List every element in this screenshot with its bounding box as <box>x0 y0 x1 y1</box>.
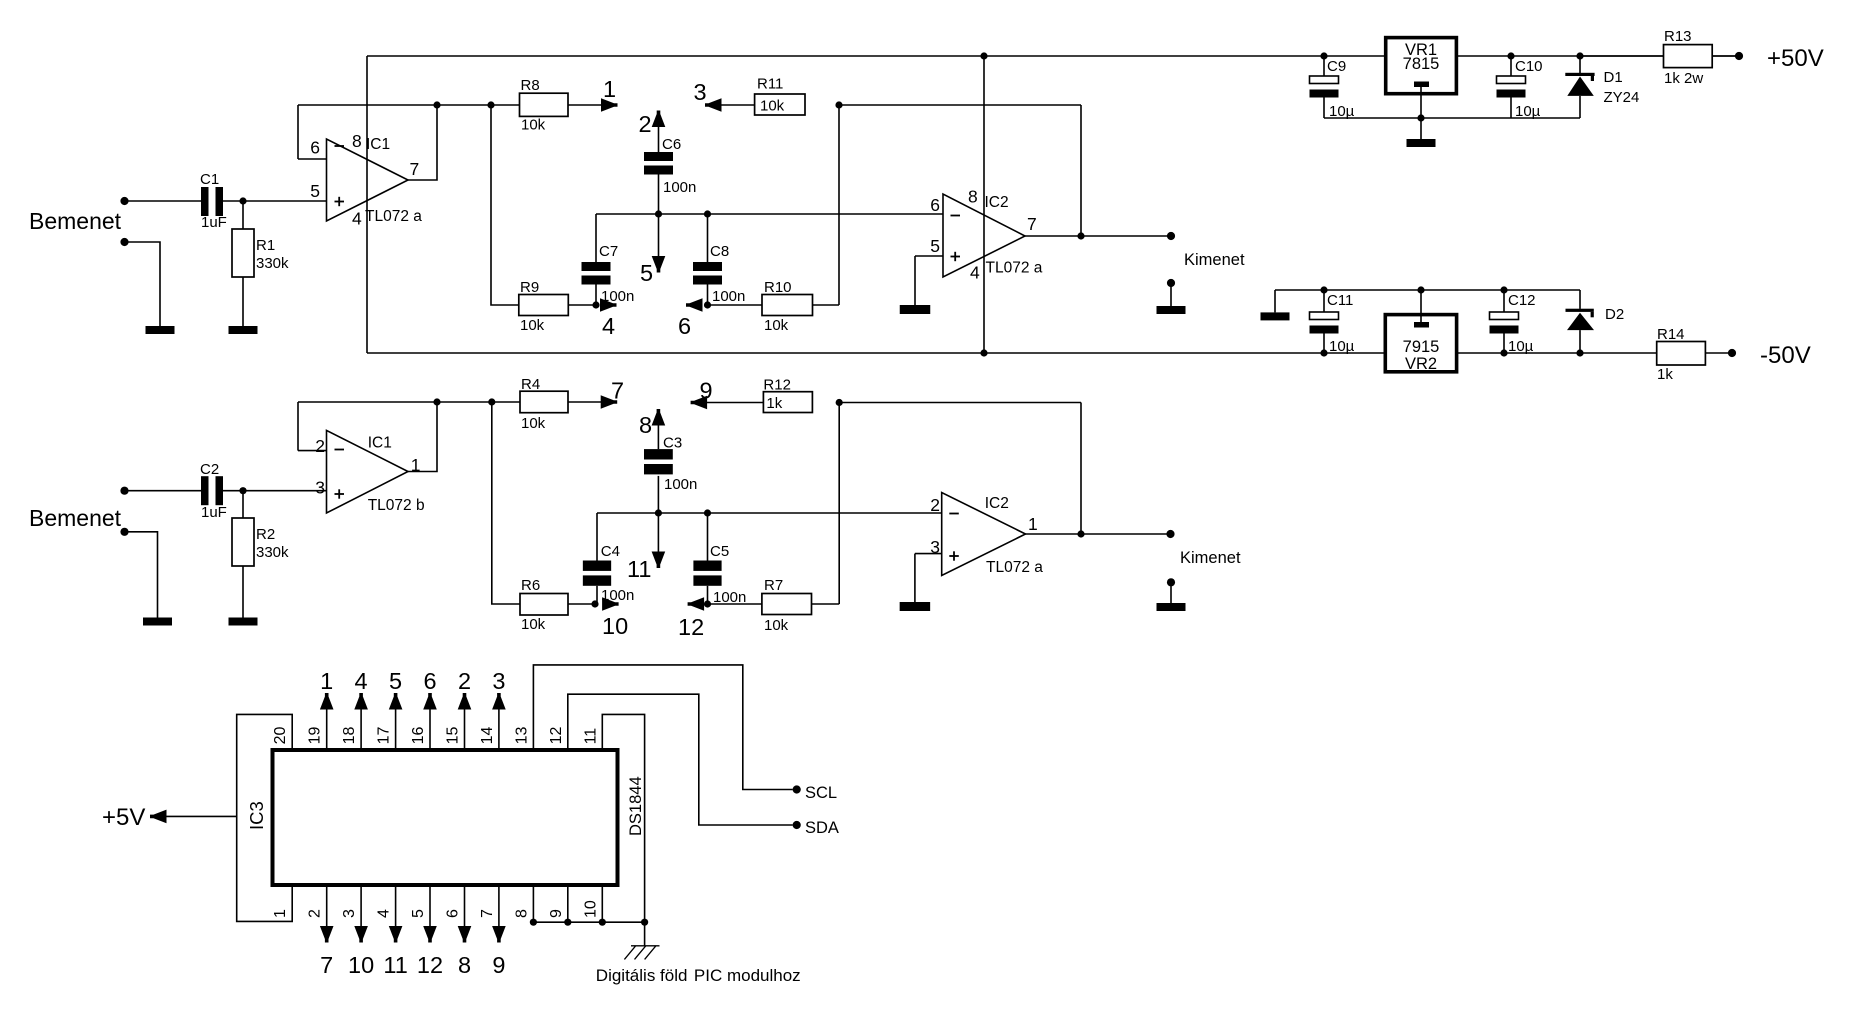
svg-text:Digitális föld: Digitális föld <box>596 966 688 985</box>
label digital ground <box>596 966 801 985</box>
digital ground symbol <box>624 922 659 959</box>
capacitor C9 <box>1310 56 1355 120</box>
node 3 arrow <box>694 79 722 112</box>
svg-text:Bemenet: Bemenet <box>29 505 122 531</box>
wire IC1b pin2 stub <box>298 450 327 452</box>
svg-text:Kimenet: Kimenet <box>1184 251 1245 269</box>
wire IC2a pin5 to ground <box>915 256 943 305</box>
wire input A to C1 <box>125 200 202 202</box>
svg-text:11: 11 <box>627 556 651 582</box>
svg-text:8: 8 <box>352 131 362 151</box>
svg-text:6: 6 <box>678 313 691 339</box>
wire IC2b output to Kimenet <box>1026 530 1171 537</box>
svg-text:100n: 100n <box>663 179 696 196</box>
svg-text:+50V: +50V <box>1767 45 1824 72</box>
IC3 pin 7 arrow node 9 (bottom) <box>492 887 506 978</box>
svg-text:6: 6 <box>445 909 462 918</box>
wire net IC2b pin2 (y513) <box>597 509 942 516</box>
ground R2 <box>229 618 258 626</box>
node Kimenet B terminal <box>1166 530 1241 567</box>
svg-text:17: 17 <box>376 727 393 745</box>
IC3 pin 3 arrow node 10 (bottom) <box>348 887 374 978</box>
wire PSU- top link <box>1275 286 1580 293</box>
svg-text:5: 5 <box>410 909 427 918</box>
svg-text:4: 4 <box>602 313 615 339</box>
wire IC2a power feed (pins 8/4) <box>983 56 985 353</box>
wire IC1a power feed (pins 8/4) <box>366 56 368 353</box>
capacitor C12 <box>1490 290 1536 355</box>
resistor R9 <box>519 279 569 334</box>
wire D1 to R13 <box>1580 55 1664 57</box>
wire C8 to R10 <box>708 304 763 306</box>
IC3 pin 5 arrow node 12 (bottom) <box>417 887 443 978</box>
svg-text:4: 4 <box>352 209 362 229</box>
wire VR1 ground stem <box>1420 118 1422 139</box>
wire +15V rail <box>367 52 1739 59</box>
wire C2 to IC1b pin3 <box>223 487 327 494</box>
svg-text:3: 3 <box>694 79 707 105</box>
resistor R4 <box>520 376 568 432</box>
wire C5 to R7 <box>708 603 762 605</box>
wire R12 to node 9 <box>695 402 764 404</box>
svg-text:9: 9 <box>548 909 565 918</box>
svg-text:15: 15 <box>445 727 462 745</box>
capacitor C7 <box>582 214 635 305</box>
IC3 pin numbers <box>272 727 599 918</box>
svg-text:IC2: IC2 <box>985 495 1009 512</box>
svg-text:C6: C6 <box>662 136 681 153</box>
svg-text:DS1844: DS1844 <box>627 776 645 836</box>
svg-text:R9: R9 <box>520 279 539 296</box>
svg-text:PIC modulhoz: PIC modulhoz <box>694 966 801 985</box>
svg-text:10: 10 <box>582 900 599 918</box>
capacitor C2 <box>200 461 227 521</box>
svg-text:-50V: -50V <box>1760 342 1811 369</box>
svg-text:C8: C8 <box>710 243 729 260</box>
svg-text:7: 7 <box>320 952 333 978</box>
svg-text:3: 3 <box>492 668 505 694</box>
ground VR1 <box>1407 139 1436 147</box>
node 7 arrow <box>601 378 624 409</box>
IC3 pin 14 arrow node 3 (top) <box>492 668 506 748</box>
node 6 arrow <box>678 298 711 339</box>
svg-text:12: 12 <box>678 614 704 640</box>
svg-text:1k: 1k <box>1657 366 1673 383</box>
svg-text:18: 18 <box>341 727 358 745</box>
svg-text:1k: 1k <box>766 395 782 412</box>
resistor R6 <box>520 577 568 633</box>
svg-text:10: 10 <box>602 613 628 639</box>
svg-text:7: 7 <box>1027 214 1037 234</box>
zener diode D1 <box>1565 56 1639 118</box>
svg-text:7815: 7815 <box>1403 55 1440 73</box>
label DS1844 <box>627 776 645 836</box>
capacitor C8 <box>693 214 745 305</box>
svg-text:SDA: SDA <box>805 819 839 837</box>
wire R4 node to R6 <box>492 402 520 604</box>
regulator VR2 7915 <box>1385 290 1456 373</box>
IC3 pin 2 arrow node 7 (bottom) <box>320 887 334 978</box>
svg-text:7915: 7915 <box>1403 338 1440 356</box>
resistor R2 <box>232 491 289 566</box>
svg-text:11: 11 <box>582 728 599 745</box>
svg-text:C9: C9 <box>1327 58 1346 75</box>
svg-text:3: 3 <box>341 909 358 918</box>
svg-text:R12: R12 <box>763 377 791 394</box>
capacitor C6 <box>644 114 696 214</box>
svg-text:14: 14 <box>479 727 496 745</box>
svg-text:12: 12 <box>548 727 565 745</box>
node 10 arrow <box>602 597 628 639</box>
regulator VR1 7815 <box>1386 38 1457 118</box>
capacitor C3 <box>644 413 697 513</box>
wire R7 to R12 node <box>812 403 840 605</box>
svg-text:13: 13 <box>513 727 530 745</box>
svg-text:R6: R6 <box>521 577 540 594</box>
svg-text:5: 5 <box>310 181 320 201</box>
wire IC3 ground rail pins 8-10 <box>530 887 648 926</box>
svg-text:16: 16 <box>410 727 427 745</box>
svg-text:R7: R7 <box>764 577 783 594</box>
wire R13 to +50V <box>1712 55 1739 57</box>
svg-text:Kimenet: Kimenet <box>1180 549 1241 567</box>
svg-text:5: 5 <box>389 668 402 694</box>
svg-text:R8: R8 <box>521 77 540 94</box>
resistor R8 <box>520 77 569 134</box>
wire R11 to node 3 <box>709 104 755 106</box>
IC3 pin 4 arrow node 11 (bottom) <box>383 887 407 978</box>
node 2 arrow <box>639 111 666 138</box>
svg-text:1uF: 1uF <box>201 504 227 521</box>
ground input A <box>146 326 175 334</box>
svg-text:C1: C1 <box>200 171 219 188</box>
svg-text:C5: C5 <box>710 543 729 560</box>
wire R9 to C7 node <box>568 301 599 308</box>
svg-text:2: 2 <box>307 909 324 918</box>
svg-text:10k: 10k <box>764 317 789 334</box>
svg-text:4: 4 <box>970 263 980 283</box>
svg-text:R14: R14 <box>1657 326 1685 343</box>
svg-text:IC1: IC1 <box>366 136 390 153</box>
node input terminal B (gnd) <box>120 528 128 536</box>
wire R6 to C4 node <box>568 600 599 607</box>
label Bemenet (B) <box>29 505 122 531</box>
IC3 pin 15 arrow node 2 (top) <box>458 668 472 748</box>
svg-text:1: 1 <box>320 668 333 694</box>
ground R1 <box>229 326 258 334</box>
svg-text:1k 2w: 1k 2w <box>1664 70 1703 87</box>
ground IC2a pin5 <box>900 305 931 314</box>
svg-text:Bemenet: Bemenet <box>29 208 122 234</box>
node 11 arrow <box>627 513 665 582</box>
node 4 arrow <box>600 298 617 339</box>
svg-text:ZY24: ZY24 <box>1604 89 1640 106</box>
svg-text:8: 8 <box>968 187 978 207</box>
ground PSU- link <box>1261 312 1290 320</box>
svg-text:C10: C10 <box>1515 58 1543 75</box>
node SCL terminal <box>793 784 838 802</box>
svg-text:1: 1 <box>1028 514 1038 534</box>
svg-text:8: 8 <box>458 952 471 978</box>
wire R4 to node 7 <box>568 401 613 403</box>
svg-text:19: 19 <box>307 727 324 745</box>
wire net IC2a pin6 (y214) <box>596 210 943 217</box>
node Kimenet A terminal <box>1167 232 1245 269</box>
svg-text:10µ: 10µ <box>1508 338 1534 355</box>
node output ground terminal A <box>1167 279 1175 306</box>
svg-text:2: 2 <box>458 668 471 694</box>
svg-text:7: 7 <box>479 909 496 918</box>
zener diode D2 <box>1566 290 1625 353</box>
svg-text:10k: 10k <box>521 616 546 633</box>
op-amp IC2a <box>930 187 1042 283</box>
svg-text:3: 3 <box>315 478 325 498</box>
svg-text:100n: 100n <box>664 476 697 493</box>
resistor R1 <box>232 201 289 277</box>
svg-text:7: 7 <box>410 159 420 179</box>
IC3 pin 6 arrow node 8 (bottom) <box>458 887 472 978</box>
svg-text:9: 9 <box>492 952 505 978</box>
svg-text:2: 2 <box>639 111 652 137</box>
svg-text:12: 12 <box>417 952 443 978</box>
capacitor C4 <box>583 513 635 604</box>
svg-text:10k: 10k <box>521 415 546 432</box>
svg-text:10k: 10k <box>764 617 789 634</box>
svg-text:2: 2 <box>315 436 325 456</box>
svg-text:R4: R4 <box>521 376 540 393</box>
svg-text:10µ: 10µ <box>1515 103 1541 120</box>
svg-text:1uF: 1uF <box>201 214 227 231</box>
wire input gnd B <box>125 532 158 618</box>
svg-text:R2: R2 <box>256 526 275 543</box>
svg-text:R1: R1 <box>256 237 275 254</box>
svg-text:D2: D2 <box>1605 306 1624 323</box>
svg-text:6: 6 <box>310 138 320 158</box>
wire R11 to IC2a output <box>835 101 1081 236</box>
svg-text:4: 4 <box>376 909 393 918</box>
wire IC3 pin11 to ground rail <box>602 714 644 922</box>
svg-text:IC2: IC2 <box>985 194 1009 211</box>
capacitor C11 <box>1310 290 1355 355</box>
svg-text:SCL: SCL <box>805 784 837 802</box>
svg-text:IC1: IC1 <box>368 435 392 452</box>
wire R12 to IC2b output <box>836 399 1081 534</box>
svg-text:C7: C7 <box>599 243 618 260</box>
svg-text:10µ: 10µ <box>1329 338 1355 355</box>
op-amp IC2b <box>930 493 1043 577</box>
svg-text:10k: 10k <box>520 317 545 334</box>
svg-text:1: 1 <box>603 76 616 102</box>
wire IC1b feedback <box>298 398 520 471</box>
ground input B <box>143 618 172 626</box>
wire input gnd A <box>125 242 161 326</box>
node +5V arrow <box>102 804 167 831</box>
IC3 pin 19 arrow node 1 (top) <box>320 668 334 748</box>
op-amp IC1a <box>310 131 422 229</box>
op-amp IC1b <box>315 430 424 514</box>
label Bemenet (A) <box>29 208 122 234</box>
node 8 arrow <box>639 409 665 438</box>
svg-text:6: 6 <box>930 195 940 215</box>
resistor R12 <box>763 377 812 413</box>
node -50V terminal <box>1728 342 1811 369</box>
node input terminal B (hot) <box>120 487 128 495</box>
node input terminal A (hot) <box>120 197 128 205</box>
svg-text:330k: 330k <box>256 544 289 561</box>
wire +5V to IC3 <box>154 815 237 817</box>
ground output A <box>1157 306 1186 314</box>
node 12 arrow <box>678 597 711 640</box>
svg-text:D1: D1 <box>1604 69 1623 86</box>
IC3 pin 17 arrow node 5 (top) <box>389 668 403 748</box>
wire IC3 pins 20/1 bracket <box>237 714 293 921</box>
svg-text:7: 7 <box>611 378 624 404</box>
label IC3 <box>246 801 267 830</box>
svg-text:TL072 a: TL072 a <box>986 260 1043 277</box>
node 1 arrow <box>601 76 618 112</box>
svg-text:2: 2 <box>930 495 940 515</box>
svg-text:R11: R11 <box>757 76 783 93</box>
IC3 pin 16 arrow node 6 (top) <box>423 668 437 748</box>
wire IC2a output to Kimenet <box>1025 232 1171 239</box>
wire IC1a pin6 stub <box>298 158 327 160</box>
wire input B to C2 <box>125 490 202 492</box>
svg-text:C4: C4 <box>601 543 620 560</box>
svg-text:C11: C11 <box>1327 292 1353 309</box>
node output ground terminal B <box>1167 578 1175 603</box>
wire R8 to node 1 <box>568 104 613 106</box>
wire IC2b pin3 to ground <box>915 554 942 602</box>
capacitor C5 <box>693 513 746 606</box>
wire R2 to ground <box>242 566 244 618</box>
svg-text:C3: C3 <box>663 435 682 452</box>
node 5 arrow <box>640 214 665 286</box>
svg-text:C12: C12 <box>1508 292 1536 309</box>
svg-text:+5V: +5V <box>102 804 145 831</box>
svg-text:100n: 100n <box>712 288 745 305</box>
svg-text:5: 5 <box>640 260 653 286</box>
svg-text:8: 8 <box>639 412 652 438</box>
svg-text:R13: R13 <box>1664 28 1692 45</box>
wire R10 to R11 node <box>813 105 840 305</box>
svg-text:8: 8 <box>513 909 530 918</box>
capacitor C1 <box>200 171 227 231</box>
svg-text:10k: 10k <box>521 117 546 134</box>
svg-text:TL072 b: TL072 b <box>368 497 425 514</box>
wire R1 to ground <box>242 277 244 326</box>
wire PSU- link left drop <box>1274 290 1276 312</box>
node input terminal A (gnd) <box>120 238 128 246</box>
svg-text:1: 1 <box>272 909 289 918</box>
svg-text:6: 6 <box>423 668 436 694</box>
svg-text:100n: 100n <box>601 288 634 305</box>
capacitor C10 <box>1497 56 1543 120</box>
svg-text:100n: 100n <box>601 587 634 604</box>
wire PSU+ ground link <box>1324 114 1580 121</box>
svg-text:IC3: IC3 <box>246 801 267 830</box>
resistor R14 <box>1657 326 1706 383</box>
svg-text:VR2: VR2 <box>1405 355 1437 373</box>
svg-text:10: 10 <box>348 952 374 978</box>
svg-text:10k: 10k <box>760 98 785 115</box>
svg-text:TL072 a: TL072 a <box>365 208 422 225</box>
wire IC1a feedback <box>298 101 520 180</box>
node +50V terminal <box>1735 45 1824 72</box>
svg-text:R10: R10 <box>764 279 792 296</box>
svg-text:9: 9 <box>700 378 713 404</box>
resistor R7 <box>762 577 812 634</box>
node 9 arrow <box>691 378 713 410</box>
svg-text:20: 20 <box>272 727 289 745</box>
wire IC3 pin13 to SCL <box>533 665 792 790</box>
IC3 package outline <box>273 750 618 885</box>
wire C1 to IC1a pin5 <box>223 197 327 204</box>
wire R8 node to R9 <box>491 105 519 305</box>
resistor R10 <box>762 279 813 334</box>
svg-text:C2: C2 <box>200 461 219 478</box>
svg-text:11: 11 <box>383 952 407 978</box>
ground IC2b pin3 <box>900 602 931 611</box>
node SDA terminal <box>793 819 839 837</box>
svg-text:TL072 a: TL072 a <box>986 559 1043 576</box>
resistor R11 <box>755 76 805 116</box>
ground output B <box>1157 603 1186 611</box>
wire -15V rail <box>367 349 1732 356</box>
svg-text:5: 5 <box>930 236 940 256</box>
svg-text:330k: 330k <box>256 255 289 272</box>
IC3 pin 18 arrow node 4 (top) <box>354 668 368 748</box>
wire IC3 pin12 to SDA <box>568 694 793 825</box>
resistor R13 <box>1664 28 1713 87</box>
svg-text:4: 4 <box>355 668 368 694</box>
